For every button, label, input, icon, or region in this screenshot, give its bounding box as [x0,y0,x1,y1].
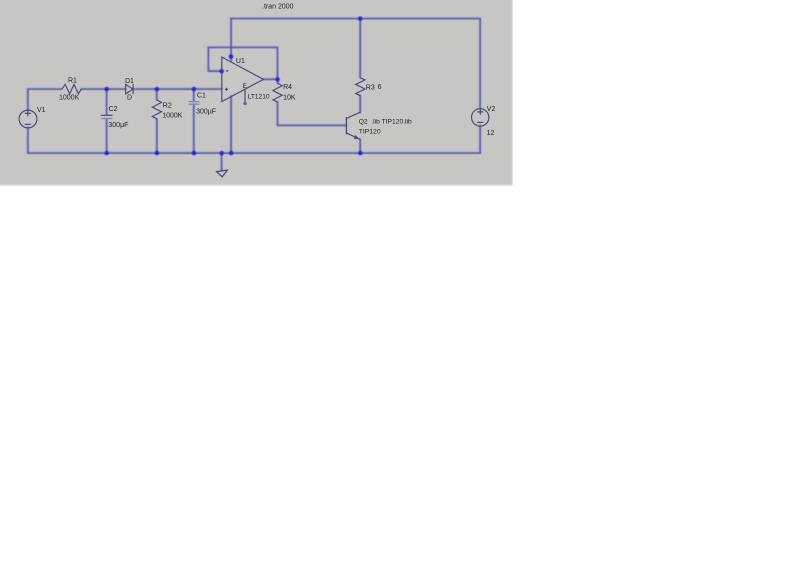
svg-text:1000K: 1000K [59,94,80,101]
svg-text:C1: C1 [197,93,206,100]
svg-text:E: E [243,83,247,90]
svg-text:6: 6 [378,84,382,91]
svg-text:R4: R4 [283,84,292,91]
svg-text:D1: D1 [125,78,134,85]
svg-text:D: D [127,94,132,101]
svg-text:R2: R2 [163,102,172,109]
svg-text:LT1210: LT1210 [248,94,270,101]
svg-text:V2: V2 [487,106,496,113]
svg-text:V1: V1 [37,107,46,114]
svg-text:Q2 .lib TIP120.lib: Q2 .lib TIP120.lib [359,119,412,126]
svg-text:.tran 2000: .tran 2000 [262,3,294,10]
svg-text:12: 12 [487,130,495,137]
svg-text:R1: R1 [68,78,77,85]
svg-text:C2: C2 [109,106,118,113]
svg-text:10K: 10K [283,95,296,102]
svg-text:U1: U1 [236,58,245,65]
svg-text:300µF: 300µF [108,122,128,129]
svg-text:300µF: 300µF [196,109,216,116]
svg-text:R3: R3 [366,84,375,91]
svg-text:TIP120: TIP120 [359,128,381,135]
svg-text:1000K: 1000K [162,113,183,120]
